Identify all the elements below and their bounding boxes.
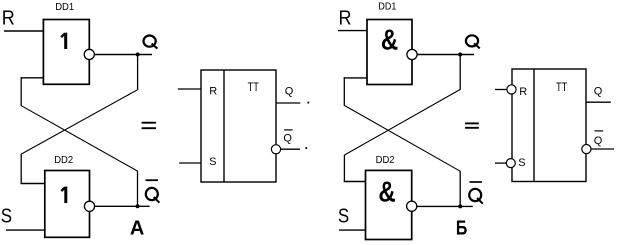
node Q junction dot [136,53,140,57]
node Q junction dot right [458,53,462,57]
flip-flop U1 input field divider [223,70,225,182]
wire vertical from Q node down right [459,55,461,90]
svg-text:Б: Б [456,218,467,240]
DD1 output inversion circle [84,49,94,59]
svg-text:TT: TT [556,82,567,94]
output label Q-bar [146,188,160,203]
right TT Q-bar output inversion circle [582,145,591,154]
wire R input to DD1 pin 1 [4,30,44,32]
svg-text:DD1: DD1 [378,1,396,13]
TT Q-bar output inversion circle [271,145,280,154]
DD2 output inversion circle right [407,201,417,211]
flip-flop U2 body [512,69,586,182]
node Q-bar junction dot right [458,204,462,208]
wire DD1 pin 2 (feedback from Q-bar) [21,77,44,79]
wire diagonal Q-bar feedback to DD1 [21,106,137,171]
DD2 function label 1 [61,187,67,203]
NAND gate DD2 body right [366,170,412,239]
wire vertical feedback left lower [20,154,22,184]
wire vertical feedback left upper right fig [343,77,345,106]
flip-flop U1 body [201,70,276,182]
wire R input of TT [178,88,201,90]
output label Q [144,36,158,49]
output label Q right [466,35,480,48]
overbar of Q-bar [146,179,159,181]
svg-text:R: R [2,8,15,30]
wire vertical from Q node down [137,55,139,90]
output label Q-bar right [469,189,483,204]
svg-text:А: А [130,217,144,239]
wire diagonal Q feedback to DD2 [21,90,137,154]
wire diagonal Q feedback to DD2 right [345,89,461,155]
svg-text:Q: Q [594,85,603,97]
svg-text:S: S [1,205,12,227]
svg-text:DD2: DD2 [376,154,395,166]
DD1 function label 1 [61,33,67,49]
wire DD2 output to Q-bar [95,205,150,207]
svg-text:&: & [381,25,398,57]
wire DD2 pin 1 right [344,181,366,183]
overbar of pin Q-bar right TT [595,130,604,132]
node Q-bar junction dot [136,204,140,208]
svg-text:S: S [338,205,349,227]
svg-text:R: R [519,86,527,98]
svg-text:Q: Q [594,135,603,147]
wire vertical down to Q-bar node right [459,171,461,207]
stray dot top [307,102,309,104]
svg-text:TT: TT [248,82,259,94]
overbar of Q-bar right [470,181,482,183]
svg-text:&: & [378,176,395,208]
NOR gate DD1 body [43,20,89,85]
wire DD1 output to Q [94,54,152,56]
S input inversion circle [506,159,515,168]
NAND gate DD1 body right [367,20,412,85]
wire Q output of right TT [586,101,611,103]
equivalence sign left [142,122,156,124]
wire vertical feedback left upper [20,77,22,106]
wire DD1 pin 2 right [344,77,367,79]
wire S input to DD2 pin 2 right [339,229,366,231]
wire vertical feedback left lower right fig [343,155,345,182]
svg-text:Q: Q [283,133,292,145]
stray dot bottom [305,147,307,149]
wire S input of TT [179,162,201,164]
svg-text:R: R [339,8,352,30]
wire DD1 output to Q right [417,54,474,56]
wire R input to DD1 pin 1 right [338,30,367,32]
wire Q-bar output of right TT [591,148,614,150]
wire Q output of TT [276,102,300,104]
svg-text:DD1: DD1 [55,1,74,13]
wire S input to DD2 pin 2 [6,229,45,231]
R input inversion circle [507,85,516,94]
svg-text:DD2: DD2 [54,154,73,166]
equivalence sign right [465,122,479,124]
overbar of pin Q-bar [284,129,292,131]
wire S input of right TT [495,162,506,164]
flip-flop U2 input field divider [533,69,535,182]
svg-text:R: R [209,85,217,97]
wire DD2 pin 1 (feedback from Q) [21,183,45,185]
svg-text:S: S [518,157,525,169]
DD2 output inversion circle [84,201,94,211]
wire vertical down to Q-bar node [137,171,139,207]
NOR gate DD2 body [45,171,90,238]
svg-text:Q: Q [285,85,294,97]
wire DD2 output to Q-bar right [417,205,473,207]
DD1 output inversion circle right [407,49,417,59]
svg-text:S: S [209,156,216,168]
wire Q-bar output of TT [281,148,300,150]
wire diagonal Q-bar feedback to DD1 right [344,105,460,171]
wire R input of right TT [495,89,507,91]
